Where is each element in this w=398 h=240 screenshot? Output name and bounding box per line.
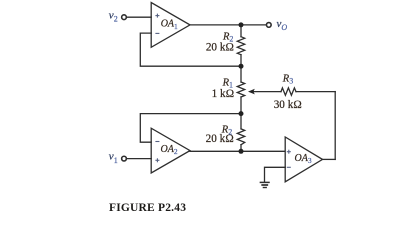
svg-text:vO: vO — [277, 18, 288, 32]
svg-text:1 kΩ: 1 kΩ — [212, 88, 235, 100]
svg-text:20 kΩ: 20 kΩ — [206, 41, 234, 53]
svg-text:v2: v2 — [109, 10, 118, 24]
svg-text:R3: R3 — [282, 73, 293, 85]
svg-text:30 kΩ: 30 kΩ — [274, 99, 302, 111]
svg-text:20 kΩ: 20 kΩ — [206, 133, 234, 145]
svg-text:FIGURE P2.43: FIGURE P2.43 — [109, 202, 186, 214]
svg-text:v1: v1 — [109, 151, 118, 165]
